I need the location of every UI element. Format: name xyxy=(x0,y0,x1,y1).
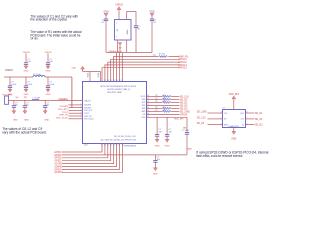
svg-text:N$2: N$2 xyxy=(24,97,27,99)
svg-text:24 nm.: 24 nm. xyxy=(30,37,38,41)
svg-text:GND: GND xyxy=(13,120,18,122)
svg-text:VDD_RTC: VDD_RTC xyxy=(84,110,93,112)
svg-text:28: 28 xyxy=(110,145,112,147)
svg-text:1: 1 xyxy=(116,23,117,25)
svg-text:SD_D3: SD_D3 xyxy=(255,125,263,127)
svg-text:LNA_IN: LNA_IN xyxy=(84,99,91,102)
svg-text:GND: GND xyxy=(44,120,49,122)
svg-text:29: 29 xyxy=(113,145,115,147)
svg-text:VDDPST GND: VDDPST GND xyxy=(107,92,123,94)
svg-text:26: 26 xyxy=(104,145,106,147)
svg-text:CMD: CMD xyxy=(141,111,146,113)
svg-text:U0RXD: U0RXD xyxy=(54,166,62,168)
svg-text:SD2: SD2 xyxy=(142,105,146,107)
svg-text:N$1: N$1 xyxy=(15,97,18,99)
svg-text:GPIO4: GPIO4 xyxy=(54,152,62,154)
svg-text:31: 31 xyxy=(119,145,121,147)
svg-text:vary with the actual PCB board: vary with the actual PCB board. xyxy=(2,130,47,134)
svg-text:R?: R? xyxy=(155,98,157,100)
svg-text:4?0: 4?0 xyxy=(118,47,121,49)
svg-text:SCLK: SCLK xyxy=(141,96,146,98)
svg-text:0.1uF: 0.1uF xyxy=(27,84,33,86)
svg-text:GND: GND xyxy=(46,94,51,96)
svg-text:SD_D2: SD_D2 xyxy=(255,119,263,121)
svg-text:C? 0805: C? 0805 xyxy=(182,130,189,132)
svg-text:7: 7 xyxy=(80,118,81,120)
svg-text:GPIO9: GPIO9 xyxy=(180,114,188,116)
svg-text:XPD_DCDC: XPD_DCDC xyxy=(56,117,68,119)
svg-text:11: 11 xyxy=(107,80,109,82)
svg-text:200: 200 xyxy=(163,101,166,103)
svg-text:SD_D2 SD_D3 SD_CLK: SD_D2 SD_D3 SD_CLK xyxy=(114,136,137,138)
svg-text:U0TXD: U0TXD xyxy=(54,164,62,166)
svg-text:SD_CMD: SD_CMD xyxy=(197,112,207,114)
svg-text:GPIO15: GPIO15 xyxy=(178,68,187,70)
svg-text:L? 2.4nH: L? 2.4nH xyxy=(33,97,41,99)
svg-text:2: 2 xyxy=(116,37,117,39)
svg-text:XPD_DCDC: XPD_DCDC xyxy=(84,119,95,121)
svg-text:GPIO9: GPIO9 xyxy=(54,169,62,171)
svg-text:GND: GND xyxy=(165,145,170,147)
svg-text:SD_CLK: SD_CLK xyxy=(197,118,206,120)
svg-text:14: 14 xyxy=(116,80,118,82)
svg-text:CS#: CS# xyxy=(224,113,228,115)
svg-text:VDD: VDD xyxy=(72,68,77,70)
svg-text:U?: U? xyxy=(223,107,225,109)
svg-text:TOUT: TOUT xyxy=(62,112,69,114)
svg-text:VDD33: VDD33 xyxy=(22,52,30,54)
svg-text:12: 12 xyxy=(110,80,112,82)
svg-text:16: 16 xyxy=(121,80,123,82)
svg-text:GPIO13: GPIO13 xyxy=(178,65,187,67)
svg-text:R?: R? xyxy=(155,107,157,109)
svg-text:MTDO MTCK MTMS MTDI GPIO2 GPIO: MTDO MTCK MTMS MTDI GPIO2 GPIO0 xyxy=(101,86,136,88)
svg-text:SD3: SD3 xyxy=(142,108,146,110)
svg-text:flash exists, could be removed: flash exists, could be removed external xyxy=(196,154,242,158)
svg-text:15: 15 xyxy=(119,80,121,82)
svg-text:0.1uF: 0.1uF xyxy=(49,84,55,86)
svg-text:VDD_RTC: VDD_RTC xyxy=(58,109,69,111)
svg-text:VDD_3P3: VDD_3P3 xyxy=(228,93,239,96)
svg-text:VDD33: VDD33 xyxy=(5,69,13,72)
svg-text:30: 30 xyxy=(116,145,118,147)
svg-text:VDD33: VDD33 xyxy=(115,5,123,7)
svg-text:SD_D0: SD_D0 xyxy=(180,99,188,101)
svg-text:SD_CLK: SD_CLK xyxy=(180,96,189,98)
svg-text:SD1: SD1 xyxy=(142,102,146,104)
svg-text:SD_D3: SD_D3 xyxy=(180,108,188,110)
svg-text:SD_CMD SD_D0 SD_D1 GPIO9 IO10: SD_CMD SD_D0 SD_D1 GPIO9 IO10 xyxy=(101,140,136,142)
svg-text:GPIO14: GPIO14 xyxy=(178,59,187,61)
svg-text:TP?: TP? xyxy=(153,55,156,57)
svg-text:IO9: IO9 xyxy=(142,114,145,116)
svg-text:SD_D1: SD_D1 xyxy=(255,113,263,115)
svg-text:VDD3P3: VDD3P3 xyxy=(60,106,69,108)
svg-text:GPIO5: GPIO5 xyxy=(54,155,62,157)
svg-text:VDD3P3: VDD3P3 xyxy=(84,105,91,107)
svg-text:PCB_ANT: PCB_ANT xyxy=(2,93,12,96)
svg-text:WP#: WP# xyxy=(224,124,228,126)
svg-text:GPIO0: GPIO0 xyxy=(54,158,62,160)
svg-text:SD_D1: SD_D1 xyxy=(180,102,188,104)
svg-text:GND: GND xyxy=(24,120,29,122)
svg-text:GND: GND xyxy=(153,173,158,175)
svg-text:200: 200 xyxy=(163,95,166,97)
svg-text:FLASH-3225: FLASH-3225 xyxy=(229,125,239,128)
svg-text:13: 13 xyxy=(113,80,115,82)
svg-text:CHIP_PU: CHIP_PU xyxy=(59,115,69,117)
svg-text:ESP8266EX: ESP8266EX xyxy=(124,146,137,148)
svg-text:VDD_SPI: VDD_SPI xyxy=(174,118,184,120)
svg-text:SD0: SD0 xyxy=(142,99,146,101)
svg-text:the selection of the crystal.: the selection of the crystal. xyxy=(30,18,67,22)
svg-text:GPIO10: GPIO10 xyxy=(54,172,63,174)
svg-text:SD_CMD: SD_CMD xyxy=(180,111,190,113)
svg-text:(N$8): (N$8) xyxy=(186,148,191,150)
svg-text:32: 32 xyxy=(122,145,124,147)
svg-text:SD_D0: SD_D0 xyxy=(197,123,205,125)
svg-text:R? 200: R? 200 xyxy=(159,53,165,55)
svg-text:GND: GND xyxy=(46,71,51,73)
svg-text:CHIP_PU: CHIP_PU xyxy=(84,116,92,118)
svg-text:3: 3 xyxy=(80,106,81,108)
svg-text:LNA_IN: LNA_IN xyxy=(58,98,66,101)
svg-text:27: 27 xyxy=(107,145,109,147)
svg-text:GND: GND xyxy=(231,139,236,141)
svg-text:R?: R? xyxy=(155,110,157,112)
svg-text:4: 4 xyxy=(80,109,81,111)
svg-text:GND: GND xyxy=(24,71,29,73)
svg-text:VDD3P3: VDD3P3 xyxy=(84,107,91,109)
svg-text:10: 10 xyxy=(104,80,106,82)
svg-text:6: 6 xyxy=(80,115,81,117)
svg-text:2: 2 xyxy=(80,104,81,106)
svg-text:200: 200 xyxy=(163,110,166,112)
svg-text:GPIO12: GPIO12 xyxy=(178,62,187,64)
svg-text:R?: R? xyxy=(155,101,157,103)
svg-text:0.1uF: 0.1uF xyxy=(11,84,17,86)
svg-text:SD_D2: SD_D2 xyxy=(180,105,188,107)
svg-text:25: 25 xyxy=(101,145,103,147)
svg-text:200: 200 xyxy=(163,107,166,109)
svg-text:GPIO2: GPIO2 xyxy=(54,161,62,163)
svg-text:L? 2.0nH: L? 2.0nH xyxy=(33,74,41,76)
svg-text:R?: R? xyxy=(155,95,157,97)
svg-text:GND: GND xyxy=(155,145,160,147)
svg-text:CHIP_PU: CHIP_PU xyxy=(178,56,188,58)
svg-text:U0TXD U0RXD XTAL_N: U0TXD U0RXD XTAL_N xyxy=(107,88,131,91)
svg-text:40MHz: 40MHz xyxy=(127,29,129,34)
svg-text:VDD33: VDD33 xyxy=(44,52,52,54)
svg-text:N$8: N$8 xyxy=(183,127,186,129)
svg-text:5: 5 xyxy=(80,112,81,114)
svg-text:200: 200 xyxy=(163,98,166,100)
svg-text:GND: GND xyxy=(24,94,29,96)
